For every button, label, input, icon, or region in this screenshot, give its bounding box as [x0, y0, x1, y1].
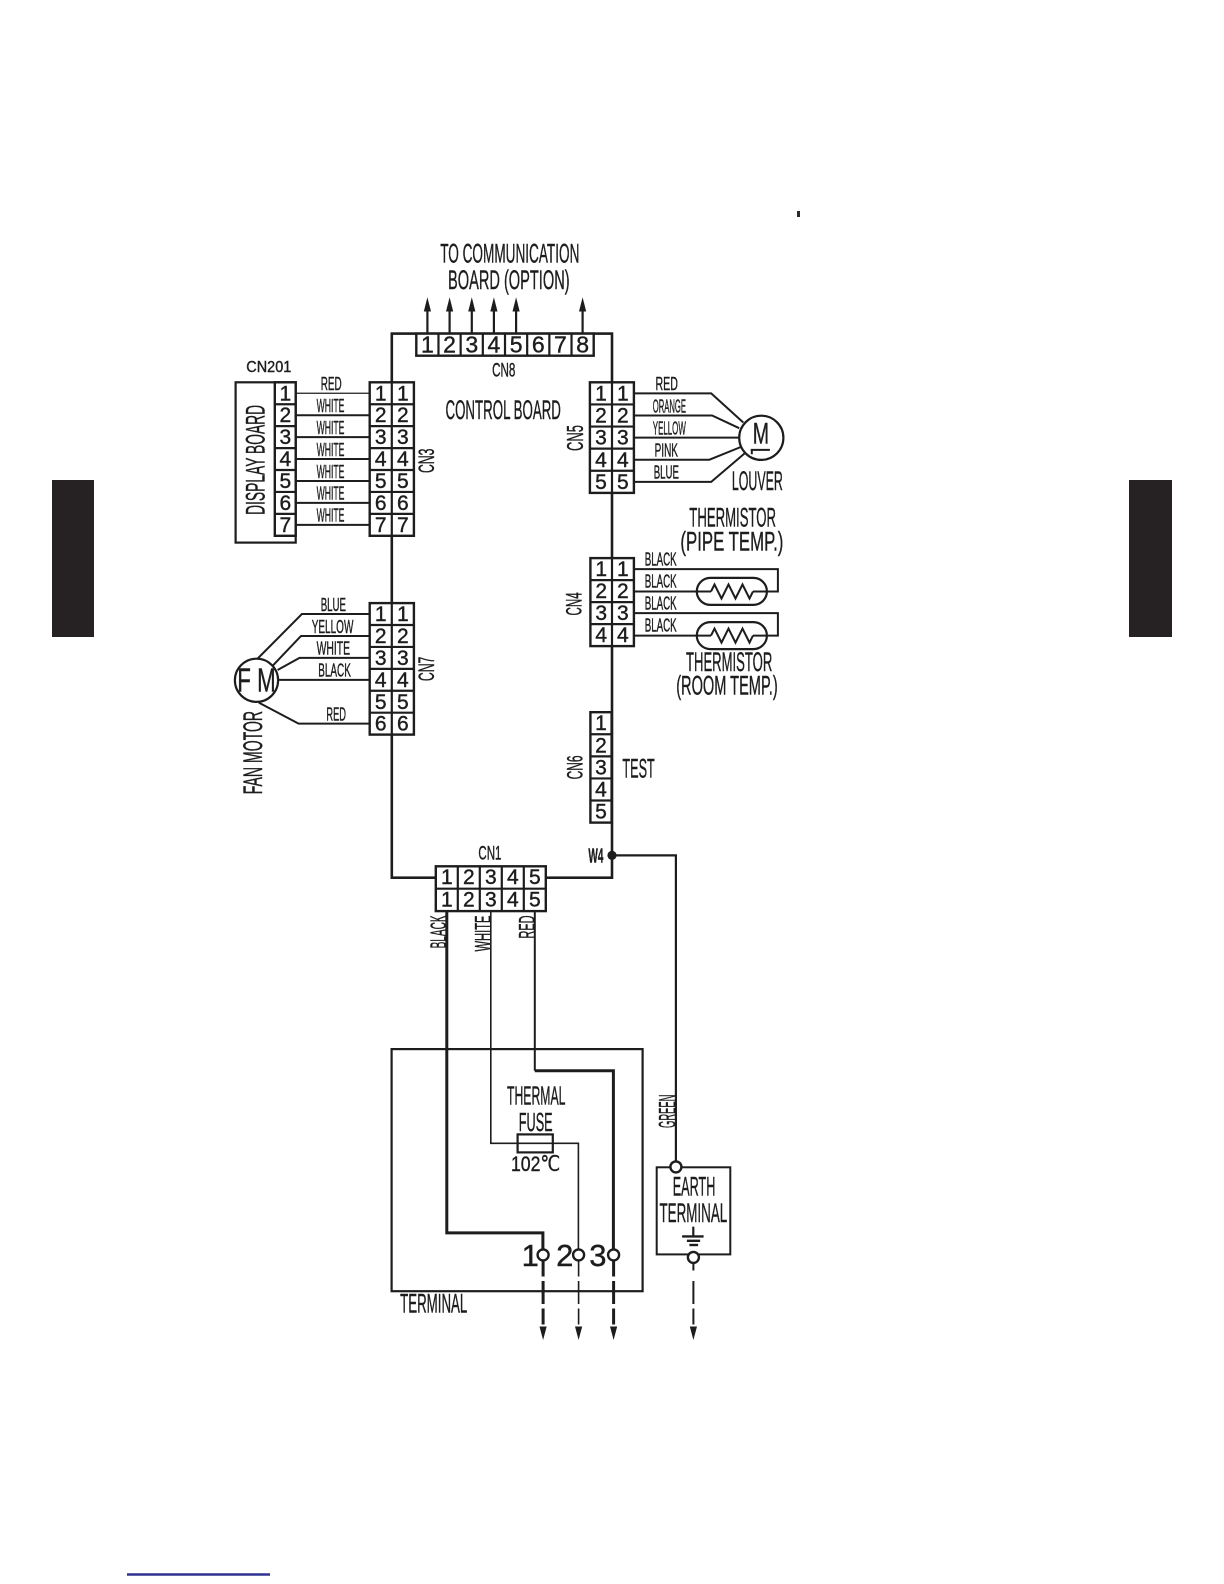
- svg-text:3: 3: [375, 426, 387, 449]
- svg-text:1: 1: [375, 382, 387, 405]
- svg-text:4: 4: [488, 332, 501, 358]
- wire WHITE (CN201-6 to CN3-6): [296, 502, 370, 504]
- svg-text:4: 4: [279, 448, 291, 471]
- control board outline: [392, 334, 612, 878]
- svg-text:5: 5: [397, 691, 409, 714]
- svg-text:TERMINAL: TERMINAL: [660, 1198, 728, 1228]
- svg-text:2: 2: [617, 405, 629, 428]
- output lead terminal 2 (dashed arrow): [578, 1260, 580, 1276]
- svg-text:WHITE: WHITE: [317, 506, 345, 526]
- terminal block outline: [392, 1049, 643, 1291]
- ground symbol: [692, 1227, 694, 1237]
- svg-text:(ROOM TEMP.): (ROOM TEMP.): [676, 671, 778, 701]
- svg-text:3: 3: [485, 889, 497, 912]
- svg-text:3: 3: [595, 427, 607, 450]
- wire BLUE (FM to CN7-1): [258, 614, 370, 658]
- svg-text:4: 4: [375, 448, 387, 471]
- svg-text:4: 4: [397, 669, 409, 692]
- svg-text:LOUVER: LOUVER: [732, 466, 783, 496]
- svg-text:4: 4: [617, 624, 629, 647]
- svg-text:6: 6: [375, 713, 387, 736]
- earth terminal top connection: [670, 1161, 681, 1172]
- svg-text:WHITE: WHITE: [317, 484, 345, 504]
- svg-text:WHITE: WHITE: [317, 440, 345, 460]
- svg-text:3: 3: [397, 426, 409, 449]
- svg-text:3: 3: [617, 427, 629, 450]
- svg-text:W4: W4: [588, 846, 603, 868]
- svg-text:5: 5: [529, 889, 541, 912]
- svg-text:CN8: CN8: [492, 361, 515, 382]
- svg-text:4: 4: [375, 669, 387, 692]
- svg-text:GREEN: GREEN: [655, 1095, 682, 1128]
- wire YELLOW (FM to CN7-2): [272, 636, 370, 667]
- svg-text:2: 2: [397, 625, 409, 648]
- svg-text:1: 1: [397, 603, 409, 626]
- svg-text:1: 1: [595, 712, 607, 735]
- wire WHITE (CN201-4 to CN3-4): [296, 458, 370, 460]
- svg-text:4: 4: [595, 624, 607, 647]
- svg-text:CN5: CN5: [562, 425, 588, 451]
- node W4 (junction): [607, 851, 616, 860]
- svg-text:1: 1: [595, 558, 607, 581]
- svg-text:RED: RED: [326, 704, 346, 724]
- svg-text:2: 2: [397, 404, 409, 427]
- svg-text:5: 5: [397, 470, 409, 493]
- svg-text:CN3: CN3: [414, 449, 439, 474]
- svg-text:(PIPE TEMP.): (PIPE TEMP.): [680, 527, 783, 557]
- svg-text:6: 6: [375, 492, 387, 515]
- svg-text:6: 6: [397, 713, 409, 736]
- svg-text:BLUE: BLUE: [654, 463, 679, 483]
- svg-text:2: 2: [463, 889, 475, 912]
- wire RED (CN1-5 to terminal 3): [534, 911, 536, 1071]
- svg-text:2: 2: [595, 580, 607, 603]
- svg-text:2: 2: [595, 405, 607, 428]
- svg-text:2: 2: [617, 580, 629, 603]
- svg-text:BLACK: BLACK: [318, 661, 351, 681]
- svg-text:1: 1: [375, 603, 387, 626]
- wires: CN8 pins to communication board (arrows): [426, 305, 428, 334]
- fan motor FM (circle): [235, 659, 278, 702]
- svg-text:BLACK: BLACK: [426, 915, 451, 948]
- wire WHITE (CN201-5 to CN3-5): [296, 480, 370, 482]
- svg-text:6: 6: [279, 492, 291, 515]
- svg-text:WHITE: WHITE: [317, 639, 351, 659]
- svg-text:WHITE: WHITE: [317, 418, 345, 438]
- svg-text:3: 3: [279, 426, 291, 449]
- svg-text:5: 5: [279, 470, 291, 493]
- svg-text:3: 3: [589, 1238, 606, 1273]
- earth lead (dashed arrow): [692, 1263, 694, 1271]
- wire BLACK (CN4-2 to pipe thermistor): [634, 591, 711, 593]
- svg-text:3: 3: [375, 647, 387, 670]
- connector CN7 (6-pin dual column): [370, 603, 414, 735]
- connector CN201 (7-pin, on display board): [275, 382, 296, 536]
- wire BLACK (CN1-1 to terminal 1): [447, 911, 543, 1250]
- svg-text:CN1: CN1: [478, 844, 501, 865]
- svg-text:1: 1: [617, 382, 629, 405]
- wire WHITE (CN201-7 to CN3-7): [296, 524, 370, 526]
- svg-text:FUSE: FUSE: [519, 1107, 553, 1137]
- svg-text:BOARD (OPTION): BOARD (OPTION): [448, 265, 570, 295]
- svg-text:WHITE: WHITE: [470, 916, 495, 952]
- svg-text:CN4: CN4: [561, 592, 586, 615]
- svg-text:CN7: CN7: [414, 657, 439, 682]
- svg-text:4: 4: [397, 448, 409, 471]
- svg-text:1: 1: [421, 332, 434, 358]
- svg-text:5: 5: [595, 471, 607, 494]
- wire BLACK (CN4-3 to room thermistor): [634, 613, 778, 636]
- svg-text:3: 3: [617, 602, 629, 625]
- wire WHITE (CN201-3 to CN3-3): [296, 436, 370, 438]
- svg-text:CONTROL BOARD: CONTROL BOARD: [446, 395, 561, 425]
- svg-text:3: 3: [485, 866, 497, 889]
- output lead terminal 3 (dashed arrow): [612, 1260, 615, 1276]
- wire BLUE (CN5-5 to louver): [634, 454, 745, 482]
- louver motor M (circle): [739, 416, 783, 460]
- svg-text:FAN MOTOR: FAN MOTOR: [238, 711, 268, 794]
- svg-text:7: 7: [375, 514, 387, 537]
- thermistor RT1 (pipe temp.): [697, 578, 767, 605]
- svg-text:7: 7: [397, 514, 409, 537]
- svg-text:1: 1: [279, 382, 291, 405]
- svg-text:BLACK: BLACK: [645, 594, 677, 614]
- svg-text:3: 3: [465, 332, 478, 358]
- svg-text:1: 1: [522, 1238, 539, 1273]
- svg-text:4: 4: [507, 866, 519, 889]
- svg-text:PINK: PINK: [655, 441, 678, 461]
- svg-text:4: 4: [507, 889, 519, 912]
- page margin bar left: [52, 480, 94, 637]
- stray speck: [797, 211, 800, 217]
- output lead terminal 1 (dashed arrow): [542, 1260, 545, 1276]
- svg-text:BLACK: BLACK: [645, 616, 677, 636]
- svg-text:RED: RED: [656, 374, 678, 394]
- svg-text:1: 1: [441, 866, 453, 889]
- svg-text:5: 5: [375, 691, 387, 714]
- svg-text:2: 2: [443, 332, 456, 358]
- wire RED (FM to CN7-6): [259, 703, 370, 724]
- wire PINK (CN5-4 to louver): [634, 447, 741, 460]
- svg-text:1: 1: [441, 889, 453, 912]
- svg-text:BLACK: BLACK: [645, 572, 677, 592]
- display board outline: [236, 382, 296, 542]
- svg-text:3: 3: [595, 602, 607, 625]
- wire ORANGE (CN5-2 to louver): [634, 415, 739, 428]
- svg-text:BLUE: BLUE: [321, 595, 346, 615]
- svg-text:TEST: TEST: [622, 754, 654, 784]
- svg-text:1: 1: [617, 558, 629, 581]
- connector CN1 (5-pin, two rows, bottom of board): [436, 866, 546, 911]
- svg-text:ORANGE: ORANGE: [653, 396, 686, 416]
- page margin bar right: [1129, 480, 1172, 637]
- svg-text:BLACK: BLACK: [645, 550, 677, 570]
- svg-text:THERMAL: THERMAL: [507, 1080, 565, 1110]
- footer rule: [127, 1573, 270, 1576]
- svg-text:DISPLAY BOARD: DISPLAY BOARD: [241, 405, 271, 515]
- svg-text:5: 5: [529, 866, 541, 889]
- connector CN6 (5-pin single column): [590, 712, 611, 822]
- svg-text:1: 1: [595, 382, 607, 405]
- svg-text:6: 6: [532, 332, 545, 358]
- thermal fuse F1: [518, 1134, 553, 1152]
- svg-text:F M: F M: [237, 661, 275, 698]
- wire WHITE (FM to CN7-3): [278, 658, 370, 670]
- svg-text:2: 2: [556, 1238, 573, 1273]
- wire RED (CN5-1 to louver): [634, 393, 743, 422]
- connector CN3 (7-pin dual column): [370, 382, 414, 536]
- svg-text:TERMINAL: TERMINAL: [400, 1289, 467, 1319]
- thermistor RT2 (room temp.): [697, 622, 767, 649]
- svg-text:YELLOW: YELLOW: [653, 418, 686, 438]
- wire BLACK (FM to CN7-4): [278, 679, 370, 681]
- svg-text:3: 3: [397, 647, 409, 670]
- connector CN5 (5-pin dual column): [590, 382, 634, 493]
- earth terminal bottom connection: [688, 1252, 699, 1263]
- svg-text:YELLOW: YELLOW: [312, 617, 354, 637]
- connector CN4 (4-pin dual column): [590, 558, 634, 646]
- svg-text:RED: RED: [321, 374, 342, 394]
- svg-text:WHITE: WHITE: [317, 396, 345, 416]
- svg-text:CN201: CN201: [246, 359, 291, 376]
- svg-text:3: 3: [595, 756, 607, 779]
- svg-text:4: 4: [617, 449, 629, 472]
- svg-text:102℃: 102℃: [511, 1153, 560, 1176]
- wire RED (CN201-1 to CN3-1): [296, 392, 370, 394]
- svg-text:2: 2: [463, 866, 475, 889]
- svg-text:2: 2: [375, 404, 387, 427]
- earth terminal box: [657, 1167, 731, 1254]
- svg-text:7: 7: [554, 332, 567, 358]
- svg-text:4: 4: [595, 449, 607, 472]
- svg-text:2: 2: [375, 625, 387, 648]
- wire YELLOW (CN5-3 to louver): [634, 437, 739, 439]
- svg-text:CN6: CN6: [562, 755, 587, 779]
- connector CN8 (8-pin, top): [416, 334, 593, 356]
- wire BLACK (CN4-1 to pipe thermistor): [634, 569, 778, 591]
- svg-text:2: 2: [595, 734, 607, 757]
- svg-text:5: 5: [595, 801, 607, 824]
- wire WHITE (CN201-2 to CN3-2): [296, 414, 370, 416]
- wire GREEN (W4 to earth terminal): [612, 855, 676, 1161]
- svg-text:5: 5: [510, 332, 523, 358]
- svg-text:4: 4: [595, 778, 607, 801]
- svg-text:WHITE: WHITE: [317, 462, 345, 482]
- wire WHITE (CN1-3 to terminal 2 via thermal fuse): [491, 911, 579, 1250]
- wire BLACK (CN4-4 to room thermistor): [634, 635, 711, 637]
- svg-text:8: 8: [576, 332, 589, 358]
- svg-text:M: M: [753, 417, 769, 450]
- svg-text:5: 5: [375, 470, 387, 493]
- svg-text:2: 2: [279, 404, 291, 427]
- svg-text:1: 1: [397, 382, 409, 405]
- svg-text:RED: RED: [514, 916, 539, 939]
- svg-text:6: 6: [397, 492, 409, 515]
- svg-text:5: 5: [617, 471, 629, 494]
- svg-text:7: 7: [279, 514, 291, 537]
